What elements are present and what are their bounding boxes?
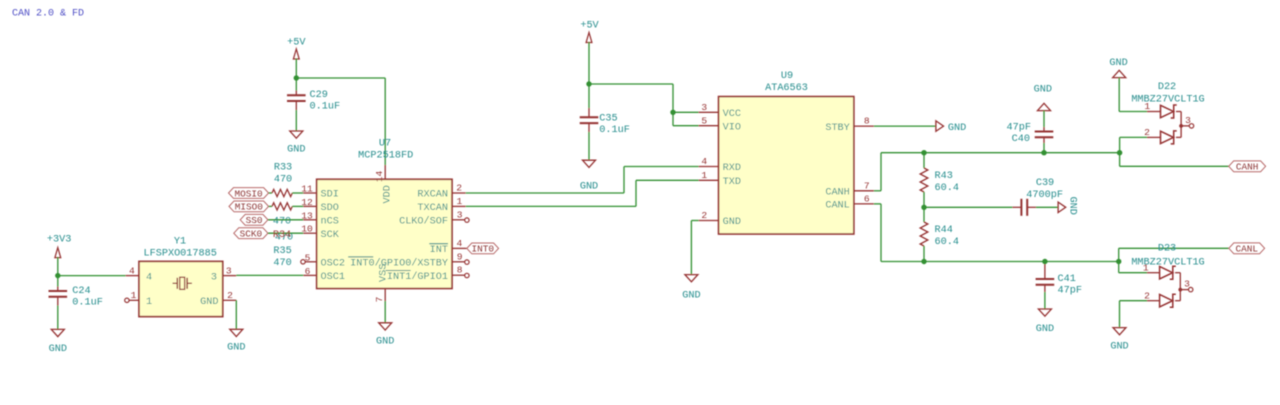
junction VCC/VIO [670,110,675,115]
U7 pin 10 SCK [301,224,339,241]
tvs diode D23 MMBZ27VCLT1G [1131,243,1204,307]
net label MISO0 [229,201,269,212]
junction R43 top [921,150,926,155]
U7 pin 1 TXCAN [417,196,465,214]
U7 pin 12 SDO [301,197,339,214]
crystal symbol inside Y1 [173,277,192,289]
wire C39 to GND arrow [1036,206,1058,208]
ic U9 ATA6563 body [719,71,854,234]
power +3V3 [47,234,71,257]
U7 pin 14 VDD [374,165,393,204]
U9 pin 7 CANH [825,180,874,198]
U7 pin 7 VSS [374,264,390,303]
U9 pin 4 RXD [699,156,741,174]
net label MOSI0 [229,188,269,199]
ground (above C40) [1034,85,1052,111]
ground arrow (C39) [1058,197,1077,215]
crystal oscillator Y1 LFSPXO017885 body [139,237,223,317]
wire D22 pin2 to CANH junction [1120,137,1147,152]
U7 pin 4 ~INT~ [429,238,467,256]
junction D23/CANL [1116,259,1121,264]
ground arrow (STBY) [936,121,966,134]
wire SS0 to nCS with value text 470 [268,216,303,227]
wire C24 to ground [57,306,59,330]
junction R43/R44 mid node [921,205,926,210]
power +5V (C29 branch) [287,38,306,60]
ground (Y1) [230,329,243,336]
tvs diode D22 MMBZ27VCLT1G [1131,82,1204,144]
ground (D22) [1109,58,1127,78]
net label CANH [1229,161,1266,172]
U7 pin 11 SDI [301,184,339,201]
net label SCK0 [234,228,268,239]
power +5V (C35 branch) [580,21,599,43]
net label SS0 [240,214,268,225]
wire C35 to ground [588,132,590,160]
U7 pin 8 ~INT1~/GPIO1 (no connect) [386,265,469,283]
U9 pin 1 TXD [699,170,741,188]
ground (D23) [1113,328,1126,335]
wire CANL junction to label [1119,248,1229,261]
wire CANH rail [874,153,1120,191]
wire U7 VSS to ground [384,301,386,323]
U7 pin 3 CLKO/SOF (no connect) [399,210,469,228]
wire D23 pin2 to ground [1120,301,1148,328]
ground (C41) [1038,309,1051,316]
wire TXCAN to TXD [466,180,699,206]
wire CANL junction to D23 pin1 [1119,262,1147,273]
wire GND to D22 pin1 [1119,78,1147,112]
wire mid node to C39 [924,206,1012,208]
wire CANL rail [874,204,1119,262]
U9 pin 6 CANL [825,194,874,212]
resistor R35 470 label (at OSC2) [273,246,291,269]
ground (C29) [287,131,305,156]
wire +3V3 to junction / Y1 [58,257,126,286]
U9 pin 2 GND [699,210,741,228]
wire Y1 pin2 to ground [235,300,237,329]
wire SCK0 to SCK with ref text R34 [268,230,303,244]
wire GND to C40 [1043,111,1045,127]
U7 pin 13 nCS [301,210,339,227]
junction +5V/C29 [294,75,299,80]
wire C41 to ground [1044,292,1046,309]
junction R44 bottom [921,259,926,264]
capacitor C39 4700pF [1012,178,1063,216]
wire STBY to GND symbol [874,125,936,127]
U9 pin 5 VIO [699,115,741,133]
junction C41/CANL [1042,259,1047,264]
junction C40/CANH [1041,150,1046,155]
capacitor C29 0.1uF [287,90,340,113]
capacitor C24 0.1uF [49,286,103,309]
ground (C24) [51,329,64,336]
Y1 pin 3 [211,265,236,283]
ic U7 MCP2518FD body [317,138,452,288]
net label CANL [1229,243,1265,254]
U7 pin 9 ~INT0~/GPIO0/XSTBY (no connect) [348,251,469,269]
wire C29 to ground [295,110,297,131]
ground (C35) [583,160,596,167]
capacitor C41 47pF [1036,262,1082,297]
U9 pin 8 STBY [825,116,874,134]
U7 pin 2 RXCAN [417,183,465,201]
wire CANH junction to label [1120,153,1229,167]
ground (U7 VSS) [379,323,392,330]
capacitor C35 0.1uF [580,108,630,136]
U9 pin 3 VCC [699,102,741,120]
net label INT0 [467,243,499,254]
capacitor C40 47pF [1007,123,1054,145]
resistor R43 60.4 [920,153,959,208]
wire +5V to junction / U9 VCC VIO [589,42,699,126]
U7 pin 6 OSC1 [303,266,345,283]
resistor R33 470 [269,162,304,196]
wire +5V to junction and VDD [296,59,385,165]
junction D22/CANH [1117,150,1122,155]
Y1 pin 2 GND [200,290,236,308]
U7 pin 5 OSC2 (no connect) [301,252,345,269]
wire RXCAN to RXD [466,167,699,194]
resistor R34 (on MISO0 line) [269,203,304,210]
wire U9 GND pin to ground [691,221,698,275]
Y1 pin 1 (no connect) [125,290,152,308]
junction +5V/C35 [586,81,591,86]
wire C40 to CANH rail [1043,143,1045,153]
ground (U9) [685,275,698,282]
junction +3V3/C24 [55,273,60,278]
resistor R44 60.4 [920,207,959,261]
wire Y1 pin3 to U7 OSC1 [236,274,303,276]
Y1 pin 4 [126,265,153,283]
